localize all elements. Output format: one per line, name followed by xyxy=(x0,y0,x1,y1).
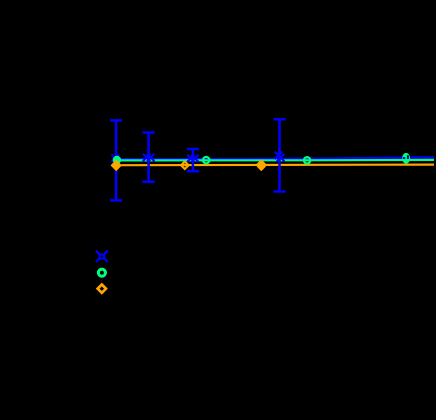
error bar E2 xyxy=(143,133,155,182)
legend green circle xyxy=(98,269,105,276)
legend orange diamond xyxy=(98,285,106,293)
green circle G1 (filled) xyxy=(113,156,121,164)
green fit line xyxy=(116,159,434,162)
orange diamond D2 (hollow) xyxy=(181,162,189,170)
green circle G2 xyxy=(203,157,209,163)
x marker M3 xyxy=(187,155,199,162)
blue fit line xyxy=(116,157,434,159)
green circle G4 xyxy=(402,153,410,164)
x marker M1 xyxy=(111,155,120,166)
error bar E1 xyxy=(110,120,122,200)
orange diamond D3 (filled) xyxy=(257,159,266,168)
green circle G3 xyxy=(304,157,310,163)
x marker M4 xyxy=(275,152,285,162)
orange diamond D1 (filled) xyxy=(111,160,122,172)
legend errorbar entry xyxy=(96,251,108,262)
error bar E4 xyxy=(273,119,285,191)
error bar E3 xyxy=(187,149,199,171)
x marker M2 xyxy=(143,154,155,161)
orange fit line xyxy=(116,164,434,167)
